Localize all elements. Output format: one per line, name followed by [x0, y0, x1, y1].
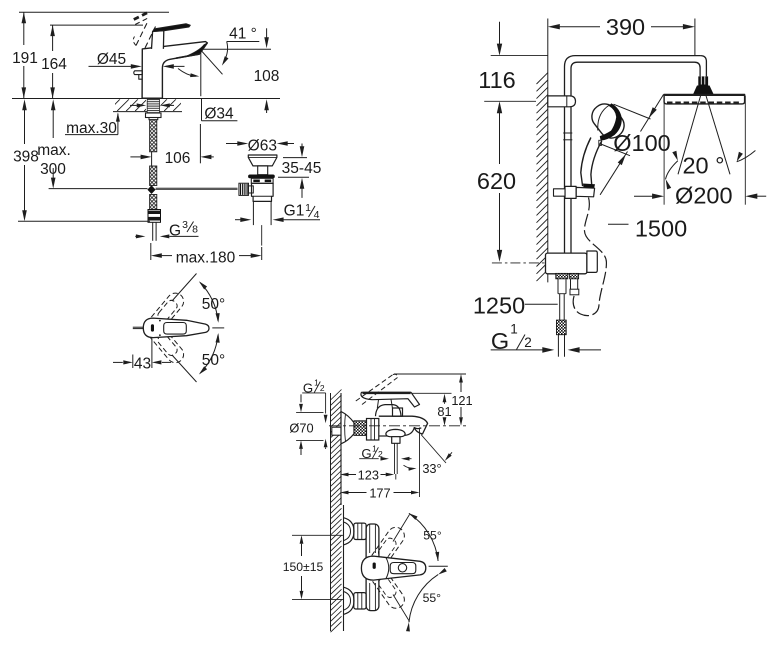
svg-text:398: 398: [13, 149, 39, 166]
svg-text:620: 620: [477, 168, 516, 194]
svg-text:8: 8: [192, 224, 198, 236]
svg-text:43: 43: [134, 355, 151, 372]
svg-text:1: 1: [510, 322, 518, 337]
svg-text:55°: 55°: [423, 529, 442, 543]
svg-text:123: 123: [358, 468, 379, 483]
svg-text:50°: 50°: [202, 352, 225, 369]
svg-text:177: 177: [369, 485, 390, 500]
svg-text:1500: 1500: [635, 216, 687, 242]
svg-text:1: 1: [305, 202, 311, 214]
svg-text:41 °: 41 °: [229, 26, 257, 43]
svg-text:Ø70: Ø70: [289, 421, 313, 436]
svg-text:390: 390: [606, 14, 645, 40]
svg-text:Ø63: Ø63: [248, 138, 277, 155]
svg-text:116: 116: [478, 67, 515, 93]
svg-text:164: 164: [41, 56, 67, 73]
svg-text:Ø34: Ø34: [204, 106, 234, 123]
svg-text:2: 2: [524, 335, 532, 350]
svg-text:33°: 33°: [422, 461, 441, 476]
svg-text:121: 121: [451, 393, 472, 408]
svg-text:55°: 55°: [423, 591, 442, 605]
svg-text:1250: 1250: [473, 293, 525, 319]
svg-text:108: 108: [254, 68, 280, 85]
svg-text:50°: 50°: [202, 296, 225, 313]
svg-text:1: 1: [372, 444, 377, 454]
svg-text:G: G: [169, 223, 181, 240]
svg-text:150±15: 150±15: [283, 560, 324, 574]
svg-text:G1: G1: [284, 203, 305, 220]
svg-text:3: 3: [182, 219, 188, 231]
svg-text:2: 2: [320, 383, 325, 393]
svg-text:106: 106: [165, 150, 191, 167]
svg-text:191: 191: [12, 50, 38, 67]
svg-text:Ø45: Ø45: [97, 51, 126, 68]
svg-text:max.: max.: [37, 142, 71, 159]
svg-text:Ø100: Ø100: [613, 130, 671, 156]
svg-text:1: 1: [314, 378, 319, 388]
svg-text:Ø200: Ø200: [675, 182, 733, 208]
svg-text:20 °: 20 °: [682, 153, 724, 179]
svg-text:max.180: max.180: [176, 250, 236, 267]
svg-text:35-45: 35-45: [282, 160, 322, 177]
svg-text:81: 81: [437, 404, 451, 419]
